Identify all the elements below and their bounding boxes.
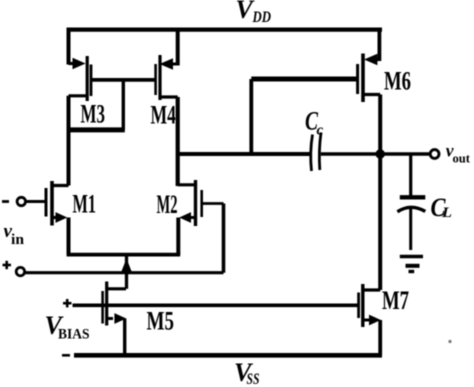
svg-text:M6: M6 bbox=[384, 67, 411, 96]
svg-text:c: c bbox=[317, 123, 324, 139]
svg-text:M3: M3 bbox=[81, 100, 106, 129]
svg-text:DD: DD bbox=[252, 9, 272, 26]
svg-text:M1: M1 bbox=[73, 190, 97, 219]
svg-text:L: L bbox=[441, 205, 452, 221]
svg-text:in: in bbox=[11, 232, 25, 248]
svg-text:M7: M7 bbox=[382, 286, 409, 315]
svg-text:SS: SS bbox=[247, 371, 260, 387]
svg-text:BIAS: BIAS bbox=[58, 327, 90, 343]
svg-text:out: out bbox=[453, 151, 471, 166]
svg-text:M2: M2 bbox=[157, 190, 178, 219]
svg-text:M4: M4 bbox=[151, 101, 177, 130]
svg-text:M5: M5 bbox=[147, 307, 175, 336]
